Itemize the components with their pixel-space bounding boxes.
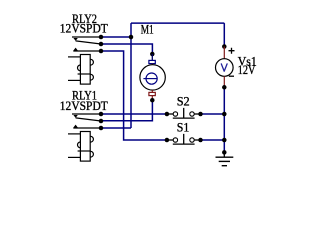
S1 pin dot right bbox=[198, 138, 203, 143]
RLY2 pin dot contact2 bbox=[99, 42, 104, 47]
switch S2 bbox=[165, 94, 203, 118]
ground bar 1 bbox=[216, 156, 234, 158]
RLY1 pin dot contact2 bbox=[99, 119, 104, 124]
svg-text:12VSPDT: 12VSPDT bbox=[60, 21, 108, 35]
S1 left pin lead bbox=[167, 139, 173, 141]
RLY2 pin dot contact3 bbox=[99, 49, 104, 54]
S2 pin dot left bbox=[165, 112, 170, 117]
RLY1 coil pin upper bbox=[68, 133, 80, 135]
S1 left contact circle bbox=[173, 138, 177, 142]
M1 pin dot top bbox=[150, 52, 155, 57]
RLY1 pin dot contact3 bbox=[99, 126, 104, 131]
svg-text:S1: S1 bbox=[177, 120, 190, 134]
relay RLY2 bbox=[60, 12, 108, 84]
RLY2 NO contact arrow bbox=[73, 48, 77, 51]
S2 left pin lead bbox=[167, 113, 173, 115]
wire: S1 right to rail bbox=[201, 139, 225, 141]
RLY1 coil loop left bbox=[78, 142, 81, 148]
Vs1 body circle bbox=[216, 59, 234, 77]
wire: RLY1 contact1 to S2 left bbox=[101, 113, 167, 115]
svg-text:12V: 12V bbox=[238, 63, 256, 77]
wire: RLY2 contact1 to rail A bbox=[101, 36, 131, 38]
RLY2 coil loop left bbox=[78, 65, 81, 71]
M1 bottom pin stub bbox=[151, 96, 153, 101]
RLY1 NO contact line bbox=[73, 127, 101, 129]
RLY1 NO contact arrow bbox=[73, 125, 77, 128]
ground stem bbox=[223, 152, 225, 157]
wire: RLY1 contact3 to rail A bottom bbox=[101, 127, 131, 129]
Vs1 minus sign bbox=[229, 75, 234, 77]
RLY1 armature pivot mark bbox=[73, 115, 77, 118]
RLY2 coil pin lower bbox=[68, 79, 80, 81]
RLY1 coil body bbox=[80, 132, 90, 162]
motor M1 bbox=[140, 23, 165, 103]
ground bar 3 bbox=[222, 165, 227, 167]
RLY2 NC contact line bbox=[72, 36, 101, 38]
RLY1 coil loop right lower bbox=[91, 151, 94, 157]
relay RLY1 bbox=[60, 88, 108, 161]
RLY1 coil loop right upper bbox=[91, 136, 94, 142]
RLY2 pin dot contact1 bbox=[99, 35, 104, 40]
S2 pushbutton actuator bbox=[173, 108, 195, 118]
RLY1 coil divider bbox=[78, 150, 91, 152]
S2 left contact circle bbox=[173, 112, 177, 116]
wire: RLY2 contact2 to motor M1 top bbox=[101, 44, 152, 54]
RLY2 coil pin upper bbox=[68, 56, 80, 58]
S1 right pin lead bbox=[194, 139, 200, 141]
M1 rotor shaft bar bbox=[143, 78, 157, 80]
RLY2 coil body bbox=[80, 55, 90, 85]
ground bar 2 bbox=[219, 160, 230, 162]
S1 pin dot left bbox=[165, 138, 170, 143]
M1 bottom lead bbox=[151, 90, 153, 92]
wire: vertical rail A x=131 bbox=[130, 23, 132, 128]
wire: RLY2 contact3 down to S1 left bbox=[101, 51, 167, 140]
M1 rotor circle bbox=[146, 73, 157, 84]
S2 right pin lead bbox=[194, 113, 200, 115]
svg-text:12VSPDT: 12VSPDT bbox=[60, 99, 108, 113]
RLY2 coil loop right upper bbox=[91, 59, 94, 65]
node A junction dot bbox=[129, 35, 134, 40]
Vs1 positive pin stub bbox=[223, 47, 225, 59]
S2 right contact circle bbox=[190, 112, 194, 116]
ground pin dot bbox=[222, 150, 227, 155]
RLY1 coil pin lower bbox=[68, 156, 80, 158]
node: S2-rail junction dot bbox=[222, 112, 227, 117]
wire: RLY1 contact2 to motor M1 bottom bbox=[101, 100, 152, 121]
RLY1 armature arm bbox=[76, 118, 101, 121]
M1 body circle bbox=[140, 65, 165, 90]
RLY2 coil loop right lower bbox=[91, 74, 94, 80]
S1 pushbutton actuator bbox=[173, 134, 195, 144]
Vs1 negative pin stub bbox=[223, 76, 225, 87]
M1 top lead bbox=[151, 64, 153, 65]
RLY2 armature arm bbox=[76, 41, 101, 44]
M1 pin dot bottom bbox=[150, 98, 155, 103]
node: S1-rail junction dot bbox=[222, 138, 227, 143]
S1 right contact circle bbox=[190, 138, 194, 142]
RLY2 coil divider bbox=[78, 73, 91, 75]
M1 bottom terminal pad bbox=[149, 92, 155, 95]
RLY2 NO contact line bbox=[73, 50, 101, 52]
RLY1 pin dot contact1 bbox=[99, 112, 104, 117]
Vs1 V glyph bbox=[221, 64, 227, 71]
wire: Vs1 right rail down to ground bbox=[223, 23, 225, 152]
M1 top terminal pad bbox=[149, 60, 155, 63]
RLY2 armature pivot mark bbox=[73, 38, 77, 41]
source Vs1 bbox=[216, 44, 257, 89]
Vs1 plus sign bbox=[229, 48, 235, 54]
svg-text:M1: M1 bbox=[141, 23, 154, 37]
wire: S2 right to rail bbox=[201, 113, 225, 115]
Vs1 pin dot positive bbox=[222, 44, 227, 49]
RLY1 NC contact line bbox=[72, 113, 101, 115]
Vs1 pin dot negative bbox=[222, 85, 227, 90]
svg-text:S2: S2 bbox=[177, 94, 190, 108]
S2 pin dot right bbox=[198, 112, 203, 117]
ground bbox=[216, 150, 234, 166]
wire: top rail from node A to Vs1 bbox=[131, 22, 224, 24]
switch S1 bbox=[165, 120, 203, 144]
M1 top pin stub bbox=[151, 54, 153, 60]
